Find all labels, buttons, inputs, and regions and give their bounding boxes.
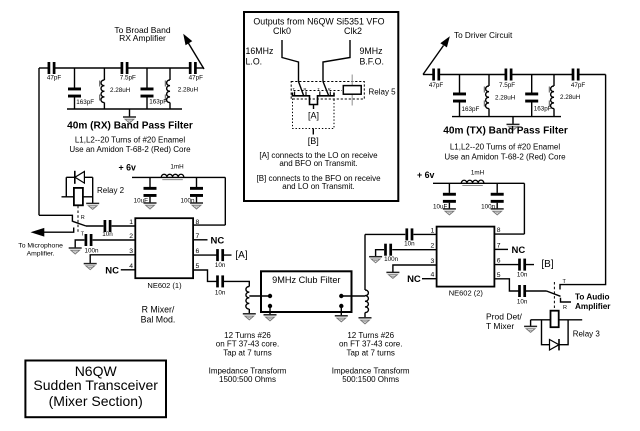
svg-text:To Driver Circuit: To Driver Circuit xyxy=(454,31,513,40)
svg-text:16MHz: 16MHz xyxy=(246,46,274,56)
svg-text:163pF: 163pF xyxy=(534,106,552,113)
svg-text:Amplifier: Amplifier xyxy=(575,302,611,311)
svg-text:1mH: 1mH xyxy=(170,164,184,171)
svg-text:100n: 100n xyxy=(85,247,100,254)
svg-text:40m (TX) Band Pass Filter: 40m (TX) Band Pass Filter xyxy=(443,126,568,137)
svg-text:Use an Amidon T-68-2 (Red) Cor: Use an Amidon T-68-2 (Red) Core xyxy=(444,152,566,161)
svg-text:7.5pF: 7.5pF xyxy=(120,75,136,82)
svg-text:Use an Amidon T-68-2 (Red) Cor: Use an Amidon T-68-2 (Red) Core xyxy=(69,145,191,154)
svg-text:2: 2 xyxy=(431,243,435,250)
svg-text:2: 2 xyxy=(129,233,133,240)
svg-text:2.28uH: 2.28uH xyxy=(560,94,581,101)
svg-text:Relay 3: Relay 3 xyxy=(573,329,601,338)
svg-text:Sudden Transceiver: Sudden Transceiver xyxy=(33,377,158,393)
svg-text:and BFO on Transmit.: and BFO on Transmit. xyxy=(279,159,357,168)
svg-text:100n: 100n xyxy=(384,256,399,263)
svg-text:NE602 (1): NE602 (1) xyxy=(147,281,182,290)
svg-text:Tap at 7 turns: Tap at 7 turns xyxy=(346,348,394,357)
svg-text:163pF: 163pF xyxy=(76,99,94,106)
svg-text:4: 4 xyxy=(129,263,133,270)
svg-text:47pF: 47pF xyxy=(429,82,444,89)
svg-text:2.28uH: 2.28uH xyxy=(110,87,131,94)
svg-text:100n: 100n xyxy=(180,198,195,205)
svg-text:Relay 2: Relay 2 xyxy=(97,186,125,195)
svg-text:L.O.: L.O. xyxy=(246,57,263,67)
svg-text:10n: 10n xyxy=(404,240,415,247)
svg-text:R: R xyxy=(304,87,307,92)
svg-text:2.28uH: 2.28uH xyxy=(495,95,516,102)
svg-text:10n: 10n xyxy=(517,299,528,306)
svg-text:47pF: 47pF xyxy=(47,75,62,82)
svg-text:Prod Det/: Prod Det/ xyxy=(486,311,523,321)
svg-text:R: R xyxy=(81,215,85,221)
svg-text:8: 8 xyxy=(497,227,501,234)
svg-text:on FT 37-43 core.: on FT 37-43 core. xyxy=(216,340,279,349)
svg-text:[B]: [B] xyxy=(541,259,553,270)
svg-text:T Mixer: T Mixer xyxy=(486,321,514,331)
svg-text:10uF: 10uF xyxy=(433,203,448,210)
svg-text:NC: NC xyxy=(211,235,225,246)
svg-text:9MHz Club Filter: 9MHz Club Filter xyxy=(272,275,340,285)
svg-text:6: 6 xyxy=(497,258,501,265)
svg-text:+ 6v: + 6v xyxy=(119,162,136,172)
svg-text:10n: 10n xyxy=(102,231,113,238)
svg-text:3: 3 xyxy=(129,248,133,255)
svg-text:1: 1 xyxy=(431,227,435,234)
svg-text:7.5pF: 7.5pF xyxy=(499,82,515,89)
svg-text:Clk2: Clk2 xyxy=(344,26,362,36)
svg-text:and LO on Transmit.: and LO on Transmit. xyxy=(282,182,354,191)
svg-text:9MHz: 9MHz xyxy=(360,46,383,56)
svg-text:10n: 10n xyxy=(215,262,226,269)
svg-text:NC: NC xyxy=(105,265,119,276)
svg-text:1500:500 Ohms: 1500:500 Ohms xyxy=(219,375,276,384)
svg-text:5: 5 xyxy=(497,272,501,279)
svg-text:NC: NC xyxy=(512,245,526,256)
svg-text:To Audio: To Audio xyxy=(575,293,610,302)
svg-text:Tap at 7 turns: Tap at 7 turns xyxy=(223,348,271,357)
svg-text:10uF: 10uF xyxy=(134,198,149,205)
svg-text:4: 4 xyxy=(431,272,435,279)
svg-text:on FT 37-43 core.: on FT 37-43 core. xyxy=(339,340,402,349)
svg-text:L1,L2--20 Turns of #20 Enamel: L1,L2--20 Turns of #20 Enamel xyxy=(75,136,186,145)
svg-text:[B]: [B] xyxy=(308,136,319,146)
svg-text:40m (RX) Band Pass Filter: 40m (RX) Band Pass Filter xyxy=(67,121,193,132)
svg-text:2.28uH: 2.28uH xyxy=(178,87,199,94)
svg-text:+ 6v: + 6v xyxy=(417,170,434,180)
svg-text:8: 8 xyxy=(196,219,200,226)
svg-text:To Microphone: To Microphone xyxy=(18,243,63,250)
svg-text:NE602 (2): NE602 (2) xyxy=(449,289,484,298)
svg-text:100n: 100n xyxy=(481,203,496,210)
svg-text:NC: NC xyxy=(407,274,421,285)
svg-text:Bal Mod.: Bal Mod. xyxy=(141,314,176,324)
svg-text:47pF: 47pF xyxy=(571,82,586,89)
svg-text:B.F.O.: B.F.O. xyxy=(360,57,384,67)
svg-text:L1,L2--20 Turns of #20 Enamel: L1,L2--20 Turns of #20 Enamel xyxy=(450,142,561,151)
svg-text:10n: 10n xyxy=(517,271,528,278)
svg-text:R Mixer/: R Mixer/ xyxy=(142,305,175,315)
svg-text:R: R xyxy=(563,305,567,311)
svg-text:Relay 5: Relay 5 xyxy=(369,87,397,96)
svg-text:RX Amplifier: RX Amplifier xyxy=(119,33,166,43)
svg-text:Clk0: Clk0 xyxy=(273,26,291,36)
svg-text:Amplifier.: Amplifier. xyxy=(27,250,55,257)
svg-text:1mH: 1mH xyxy=(471,169,485,176)
svg-text:7: 7 xyxy=(196,233,200,240)
svg-text:5: 5 xyxy=(196,263,200,270)
svg-text:6: 6 xyxy=(196,248,200,255)
svg-text:R: R xyxy=(328,87,331,92)
svg-text:1: 1 xyxy=(129,219,133,226)
svg-text:(Mixer Section): (Mixer Section) xyxy=(49,393,143,409)
svg-text:10n: 10n xyxy=(215,290,226,297)
svg-text:7: 7 xyxy=(497,242,501,249)
svg-text:163pF: 163pF xyxy=(462,106,480,113)
svg-text:500:1500 Ohms: 500:1500 Ohms xyxy=(342,375,399,384)
svg-text:[A]: [A] xyxy=(308,111,319,121)
svg-text:3: 3 xyxy=(431,258,435,265)
svg-text:[A]: [A] xyxy=(235,250,247,261)
svg-text:163pF: 163pF xyxy=(149,98,167,105)
svg-text:47pF: 47pF xyxy=(189,75,204,82)
